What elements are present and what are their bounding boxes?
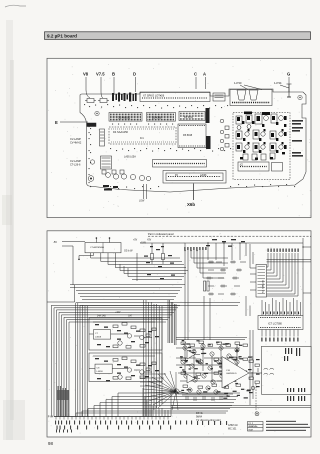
svg-text:C47: C47 <box>128 316 133 318</box>
small op-amp A <box>187 350 200 359</box>
svg-text:P 64: P 64 <box>48 415 54 419</box>
svg-text:+5V: +5V <box>147 240 152 242</box>
svg-text:GHM 41r: GHM 41r <box>249 425 258 428</box>
caps columns continue down <box>204 296 250 340</box>
svg-text:A: A <box>203 72 206 77</box>
label V8 <box>83 72 89 77</box>
dense parts cluster near B <box>112 93 137 102</box>
legend text <box>266 421 310 431</box>
inset box inner labels <box>284 348 305 401</box>
right edge tiny labels <box>292 120 303 157</box>
svg-text:V7.5: V7.5 <box>96 72 105 77</box>
label E <box>55 120 58 125</box>
uP IC big <box>178 124 206 148</box>
svg-text:IC1: IC1 <box>140 137 144 140</box>
double lines right <box>171 405 311 407</box>
svg-text:IC1 SAA1251: IC1 SAA1251 <box>262 279 265 293</box>
X6b label <box>193 184 195 201</box>
svg-text:+10V: +10V <box>115 312 121 314</box>
center vertical bundle from bus <box>184 243 228 340</box>
svg-text:D4 SAA1250: D4 SAA1250 <box>113 130 129 134</box>
nested elbow wires from left border going down <box>51 305 180 416</box>
right cluster parts grid <box>236 114 283 160</box>
svg-text:D1 AN6552: D1 AN6552 <box>118 117 131 120</box>
IC1 dashed big <box>109 127 176 144</box>
svg-text:L4558: L4558 <box>95 337 102 339</box>
vertical part column left of uP <box>206 108 211 149</box>
DR text block <box>196 412 221 422</box>
svg-text:CT-L26-6: CT-L26-6 <box>70 164 81 167</box>
connector X6 strip <box>124 156 207 168</box>
short grid horizontals left of fan <box>140 374 166 386</box>
svg-text:C1 2: C1 2 <box>249 423 254 425</box>
svg-text:IC7 LC7580: IC7 LC7580 <box>268 322 282 326</box>
+5V labels <box>133 240 152 245</box>
connector X2 bottom of cluster <box>238 162 283 171</box>
svg-text:1-P34: 1-P34 <box>274 81 282 85</box>
misc top labels <box>206 239 245 247</box>
IC D1 <box>109 113 142 122</box>
svg-text:LOW: LOW <box>139 201 145 203</box>
label G <box>287 72 290 77</box>
dashed drop to target circle <box>250 330 259 416</box>
vertical bundle dark left <box>57 386 69 417</box>
svg-text:C: C <box>194 72 197 77</box>
panel 1 frame <box>47 58 311 217</box>
IC D3 <box>179 112 205 121</box>
third pin label row <box>56 430 72 433</box>
transformer T1 <box>204 281 210 291</box>
svg-text:D: D <box>133 72 136 77</box>
mid lower cluster: test point circles <box>88 156 151 181</box>
left long horizontals <box>47 253 188 302</box>
bus above cluster <box>176 338 247 340</box>
vertical part strip <box>100 129 105 146</box>
middle small parts column x220-230 <box>220 119 229 151</box>
right-of-triangle parts <box>249 356 259 390</box>
connector X6b big <box>163 171 226 184</box>
svg-text:+5V: +5V <box>133 240 138 242</box>
bottom caps row <box>182 395 228 401</box>
svg-text:X7 SPKO LOT#26: X7 SPKO LOT#26 <box>143 94 165 98</box>
svg-text:X6b: X6b <box>187 202 195 207</box>
svg-text:1-P30: 1-P30 <box>234 81 242 85</box>
svg-text:CV-LAMP: CV-LAMP <box>70 138 81 141</box>
headphone jack symbols <box>264 368 274 374</box>
label A <box>203 72 206 77</box>
small resistors vertical <box>151 254 165 265</box>
board pad speckle <box>84 104 295 189</box>
-5V wire to CT box <box>62 242 85 247</box>
labels above box1 <box>97 312 133 318</box>
svg-text:71r disconnecting point: 71r disconnecting point <box>196 419 221 422</box>
svg-text:Part in indicated panel: Part in indicated panel <box>148 232 174 236</box>
center dense cluster <box>143 300 247 417</box>
resistor array R40-R62 <box>181 342 186 344</box>
IC7 top pin numbers <box>263 312 299 315</box>
right cluster dark speckle <box>237 112 287 160</box>
misc top-mid parts <box>213 93 225 101</box>
IC7 <box>258 316 303 330</box>
bundle knot <box>174 389 188 394</box>
legend table <box>248 422 264 432</box>
right bus pin numbers <box>268 249 299 252</box>
svg-text:E: E <box>55 120 58 125</box>
IC1 left pins <box>250 244 256 290</box>
svg-text:L2006: L2006 <box>200 175 207 177</box>
sub-circuit 1 box <box>89 318 162 350</box>
sub-circuit 2 box <box>89 353 162 382</box>
ladder to IC7 verticals <box>262 298 301 316</box>
svg-text:D3 4011: D3 4011 <box>184 116 194 119</box>
CT box bottom pins to bus elbows <box>78 253 186 268</box>
op-amp triangle <box>217 357 262 389</box>
scan speckle noise <box>48 60 311 434</box>
label B <box>112 72 115 77</box>
label C <box>194 72 197 77</box>
svg-text:54A 54B: 54A 54B <box>97 315 106 318</box>
svg-text:80M: 80M <box>249 429 253 431</box>
pin row line <box>54 417 171 420</box>
header bar 9.2 uP1 board <box>45 32 311 40</box>
big connector block top right <box>230 81 292 106</box>
svg-text:98: 98 <box>48 441 53 446</box>
right ladder verticals + staircase <box>267 253 312 296</box>
svg-text:CV-4M-62: CV-4M-62 <box>70 142 82 145</box>
top edge small parts row <box>85 99 109 103</box>
svg-text:LA05 L05A: LA05 L05A <box>124 156 136 159</box>
small op-amp B <box>187 374 200 383</box>
panel 2 frame <box>47 231 311 437</box>
svg-text:MC 101: MC 101 <box>228 428 237 431</box>
IC D2 <box>147 113 176 122</box>
dashed separator line top <box>148 235 311 237</box>
svg-text:L4558: L4558 <box>97 371 104 373</box>
pin number row left group <box>184 247 206 250</box>
label V7.5 <box>96 72 105 77</box>
scan edge shading <box>2 5 26 440</box>
left text labels <box>70 138 82 167</box>
svg-text:G: G <box>287 72 290 77</box>
top bus horizontal <box>140 242 303 244</box>
CT box <box>85 237 121 253</box>
connector X7 <box>140 93 210 102</box>
svg-text:CT ANTENNA: CT ANTENNA <box>90 246 104 249</box>
wire specks mid <box>144 246 175 279</box>
svg-text:B: B <box>112 72 115 77</box>
fan bundle <box>143 371 178 410</box>
left feeder vertical <box>72 246 74 285</box>
top horizontals above boxes <box>76 303 240 306</box>
caps grid center <box>206 261 246 296</box>
inset box bottom right <box>262 346 312 394</box>
wires below fan to pin row <box>143 388 168 417</box>
svg-text:G5 b W: G5 b W <box>124 250 133 253</box>
board outline <box>80 89 306 192</box>
label D <box>133 72 136 77</box>
nested elbows right side down to pin row <box>76 389 240 417</box>
left verticals set B <box>76 303 88 417</box>
pin labels two rows <box>55 421 227 430</box>
cluster interconnect wires <box>176 348 240 394</box>
svg-text:-5V: -5V <box>53 240 57 244</box>
vertical strip part <box>139 184 147 203</box>
wire verticals to pin row <box>143 300 162 417</box>
svg-text:V8: V8 <box>83 72 89 77</box>
svg-text:D2 4066: D2 4066 <box>152 117 162 120</box>
screw hole top-right <box>298 95 302 99</box>
right dense cluster dashed region <box>233 113 290 180</box>
IC7 bottom pins and labels <box>262 330 298 337</box>
IC1 vertical tall <box>256 265 267 298</box>
transistor array Q10-Q32 <box>183 346 187 350</box>
edge part below E arrow <box>87 123 96 127</box>
tiny parts under circles <box>103 185 118 191</box>
svg-text:D5 8048: D5 8048 <box>183 134 193 137</box>
svg-text:9.2 µP1 board: 9.2 µP1 board <box>47 34 77 39</box>
screw hole left <box>95 111 99 115</box>
svg-text:CV-LAMP: CV-LAMP <box>70 160 81 163</box>
right edge vertical feeder <box>302 238 311 316</box>
bus stubs to caps grid <box>207 242 246 266</box>
svg-text:GM4558-D: GM4558-D <box>226 373 237 375</box>
